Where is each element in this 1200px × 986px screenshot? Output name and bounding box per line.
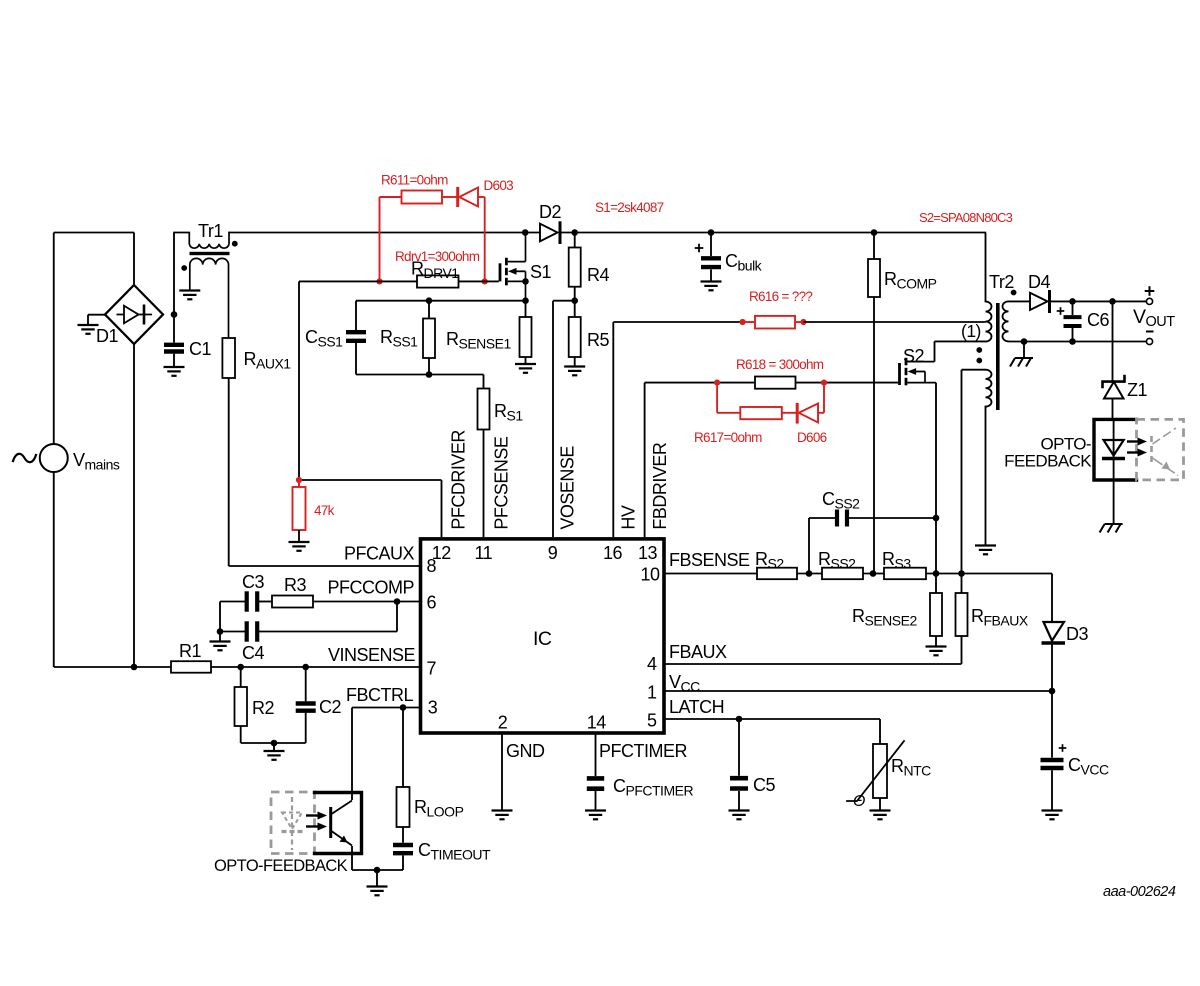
svg-text:PFCDRIVER: PFCDRIVER	[449, 430, 469, 530]
label CPFCTIMER	[613, 776, 693, 799]
ground below CPFCTIMER	[585, 811, 606, 820]
pin number 3	[428, 698, 438, 718]
resistor R1	[171, 661, 211, 673]
wire red D603 branch right	[478, 197, 485, 281]
label S1	[530, 262, 552, 282]
wire CSS1 bottom rail	[356, 374, 484, 376]
capacitor C1	[164, 345, 184, 352]
label FEEDBACK right	[1004, 452, 1092, 471]
pin label VINSENSE	[328, 645, 416, 665]
svg-text:Tr2: Tr2	[989, 272, 1014, 292]
pin label LATCH	[669, 697, 724, 717]
ground below R2/C2	[264, 751, 285, 760]
label C6	[1087, 310, 1109, 330]
label C2	[319, 697, 341, 717]
resistor RAUX1	[222, 338, 235, 378]
wire Z1 to opto LED	[1113, 399, 1114, 459]
svg-text:D606: D606	[797, 430, 827, 445]
wire left mains rail vertical	[53, 233, 55, 668]
node PFCCOMP junction	[394, 598, 401, 605]
pin number 6	[427, 593, 437, 613]
label RSS1	[380, 327, 418, 350]
ground below Tr2 aux	[975, 546, 996, 555]
svg-text:D1: D1	[96, 326, 118, 346]
resistor RLOOP	[397, 708, 410, 828]
wire C3 left lead	[220, 601, 245, 603]
node S1 source junction	[522, 278, 529, 285]
Tr1 secondary phasing dot	[181, 265, 187, 271]
wire RSENSE1 to ground	[525, 357, 527, 364]
ground below C5	[729, 811, 750, 820]
label C1	[189, 339, 211, 359]
svg-text:Rdrv1=300ohm: Rdrv1=300ohm	[395, 249, 480, 264]
label OPTO- right	[1040, 435, 1091, 454]
wire Tr1 primary left lead down to D1	[173, 233, 175, 315]
wire C4 right return	[259, 602, 397, 632]
node red junction 47k tap	[296, 477, 302, 483]
transformer Tr2 aux winding	[986, 370, 992, 407]
wire CSS1 top rail	[356, 300, 526, 302]
diode D603 (red)	[458, 187, 478, 207]
svg-text:R611=0ohm: R611=0ohm	[381, 173, 448, 188]
svg-text:47k: 47k	[314, 503, 335, 518]
resistor R611 (red)	[402, 191, 443, 204]
resistor RS2	[757, 568, 797, 580]
capacitor CSS2	[809, 510, 936, 574]
node RSENSE1 top junction	[522, 297, 529, 304]
wire PFCSENSE: RS1 to IC pin 11	[483, 430, 485, 538]
ground below RSENSE2	[926, 647, 947, 656]
diode D2	[540, 221, 560, 244]
ground below GND pin	[492, 811, 513, 820]
svg-text:9: 9	[548, 543, 558, 563]
node CSS2 right junction	[933, 515, 940, 522]
Tr2 primary phasing dot	[976, 347, 982, 353]
Tr1 primary phasing dot	[232, 241, 238, 247]
pin label PFCAUX	[344, 544, 415, 564]
wire 47k bottom lead	[298, 530, 300, 542]
opto phototransistor left	[331, 801, 352, 846]
terminal VOUT-	[1146, 338, 1152, 344]
wire FBDRIVER: IC pin 13 to R618 line	[645, 383, 755, 537]
pin label VCC	[669, 672, 700, 695]
svg-text:VINSENSE: VINSENSE	[328, 645, 416, 665]
svg-text:D4: D4	[1028, 272, 1050, 292]
svg-text:C4: C4	[242, 643, 264, 663]
capacitor CSS1	[346, 301, 366, 375]
node C4 left junction	[217, 628, 224, 635]
wire top HV rail right of D2	[560, 232, 986, 234]
node red junction D606 right	[821, 380, 827, 386]
node red junction R616 left	[740, 319, 746, 325]
wire red D606 branch right	[818, 383, 824, 413]
node R4 tap junction	[571, 229, 578, 236]
thermistor RNTC	[847, 741, 904, 801]
wire R4 bottom lead	[574, 287, 576, 301]
resistor RS3	[884, 568, 926, 580]
svg-text:D3: D3	[1066, 624, 1088, 644]
wire PFCCOMP: R3 to IC pin 6	[313, 601, 421, 603]
pin label HV (rotated)	[618, 505, 638, 529]
pin label VOSENSE (rotated)	[557, 446, 577, 530]
plus mark Cbulk	[695, 244, 704, 253]
label RCOMP	[884, 269, 937, 292]
svg-text:Z1: Z1	[1127, 380, 1147, 400]
label VOUT	[1133, 306, 1175, 330]
wire ground stub R2/C2	[273, 743, 275, 751]
node opto ground junction	[374, 867, 381, 874]
label D603 (red)	[484, 178, 514, 193]
label D1	[96, 326, 118, 346]
resistor R618	[755, 377, 796, 389]
wire RSS2 to RS3	[863, 573, 884, 575]
wire PFCAUX: RAUX1 to IC pin 8	[229, 378, 421, 566]
label RFBAUX	[971, 606, 1029, 629]
node RCOMP junction	[871, 229, 878, 236]
svg-text:PFCSENSE: PFCSENSE	[491, 436, 511, 530]
wire D1 bottom lead	[133, 344, 135, 667]
svg-text:D2: D2	[539, 202, 561, 222]
wire RCOMP bottom lead	[873, 297, 875, 574]
svg-text:R618 = 300ohm: R618 = 300ohm	[736, 357, 824, 372]
pin label FBAUX	[669, 642, 727, 662]
node RLOOP junction	[400, 704, 407, 711]
ground below opto-feedback	[367, 887, 388, 896]
svg-text:4: 4	[647, 654, 657, 674]
ground below Cbulk	[701, 282, 722, 291]
svg-text:Θ: Θ	[853, 793, 865, 810]
label RNTC	[891, 756, 931, 779]
wire GND pin 2 to ground	[501, 733, 503, 810]
node RSS1 top junction	[426, 297, 433, 304]
opto LED left arrows	[306, 812, 327, 831]
svg-text:R616 = ???: R616 = ???	[749, 289, 812, 304]
label C4	[242, 643, 264, 663]
svg-text:PFCAUX: PFCAUX	[344, 544, 415, 564]
capacitor C6	[1064, 301, 1082, 341]
svg-text:GND: GND	[506, 741, 545, 761]
opto LED left (dashed gray)	[282, 797, 303, 850]
transistor S2 MOSFET	[900, 358, 937, 386]
label aaa-002624	[1103, 884, 1176, 900]
wire Tr2 primary top lead	[985, 233, 987, 302]
label R4	[587, 265, 609, 285]
wire RNTC to ground	[879, 798, 881, 810]
label RSENSE1	[446, 329, 511, 352]
label CVCC	[1068, 755, 1109, 778]
label IC	[533, 628, 552, 650]
wire S1 gate line	[299, 280, 499, 282]
capacitor CPFCTIMER	[587, 733, 604, 789]
minus mark VOUT	[1146, 331, 1154, 333]
svg-text:2: 2	[498, 713, 508, 733]
zener diode Z1	[1103, 376, 1125, 399]
resistor RSS1	[423, 301, 435, 375]
node RCOMP bottom junction	[870, 570, 877, 577]
chassis ground below right opto	[1100, 524, 1123, 533]
capacitor C5	[730, 719, 748, 789]
optocoupler right solid box	[1094, 419, 1137, 480]
svg-text:C6: C6	[1087, 310, 1109, 330]
wire red R611 to D603	[442, 196, 458, 198]
svg-text:VOSENSE: VOSENSE	[557, 446, 577, 530]
svg-text:FEEDBACK: FEEDBACK	[1004, 452, 1092, 471]
wire left mains rail top horizontal	[54, 232, 134, 234]
wire top HV rail left of D2	[229, 232, 540, 234]
pin label PFCDRIVER (rotated)	[449, 430, 469, 530]
wire D3 to VCC junction	[1051, 643, 1053, 758]
svg-text:R3: R3	[284, 575, 306, 595]
node C5 junction	[736, 716, 743, 723]
resistor R2	[235, 667, 248, 726]
node RFBAUX top junction	[958, 570, 965, 577]
wire R5 to ground	[574, 357, 576, 366]
svg-text:C1: C1	[189, 339, 211, 359]
node junction mains/D1 bottom	[131, 664, 138, 671]
label R618 = 300ohm (red)	[736, 357, 824, 372]
wire mains bottom horizontal	[54, 666, 171, 668]
resistor RSS2	[822, 568, 863, 580]
svg-text:R5: R5	[587, 330, 609, 350]
wire CVCC to ground	[1051, 770, 1053, 810]
wire R2/C2 bottom	[241, 713, 306, 743]
label C5	[753, 775, 775, 795]
ground below Tr1 secondary	[179, 291, 200, 300]
wire red R617 branch left	[717, 383, 740, 413]
label CSS2	[822, 489, 860, 512]
resistor R5	[569, 301, 581, 357]
label D606 (red)	[797, 430, 827, 445]
ground below C1	[164, 367, 185, 376]
label R616 = ??? (red)	[749, 289, 812, 304]
svg-text:(1): (1)	[961, 321, 981, 341]
pin label FBSENSE	[669, 550, 750, 570]
capacitor CVCC	[1041, 760, 1064, 768]
capacitor C3	[247, 591, 258, 611]
wire R618 to S2 gate	[796, 382, 899, 384]
resistor RSENSE2	[930, 593, 942, 636]
ground at D1 left	[78, 325, 99, 334]
svg-text:13: 13	[638, 543, 658, 563]
label tap (1)	[961, 321, 981, 341]
node junction D1 right / C1 / Tr1	[171, 311, 178, 318]
svg-text:OPTO-FEEDBACK: OPTO-FEEDBACK	[214, 857, 348, 875]
chassis ground secondary	[1010, 358, 1033, 367]
optocoupler left solid box	[315, 793, 362, 854]
svg-text:R1: R1	[179, 641, 201, 661]
wire FBCTRL: IC pin 3 to opto	[352, 708, 421, 801]
label R617=0ohm (red)	[694, 430, 762, 445]
opto LED right	[1102, 440, 1125, 459]
optocoupler left dashed box	[271, 792, 315, 854]
node red junction left on gate wire	[376, 278, 382, 284]
pin number 2	[498, 713, 508, 733]
resistor R4	[569, 233, 581, 287]
resistor R3	[272, 596, 313, 608]
label C3	[242, 572, 264, 592]
node red junction R616 right	[800, 319, 806, 325]
label RS1	[494, 401, 523, 424]
label OPTO-FEEDBACK left	[214, 857, 348, 875]
pin number 10	[640, 565, 660, 585]
label RS3	[882, 549, 911, 572]
wire Tr2 aux bottom lead	[985, 407, 987, 545]
svg-text:16: 16	[603, 543, 623, 563]
node C6 top junction	[1069, 298, 1076, 305]
wire C1 top lead	[173, 315, 175, 343]
wire VCC: IC pin 1 to junction	[664, 690, 1052, 692]
label R1	[179, 641, 201, 661]
bridge rectifier D1	[105, 285, 163, 344]
node C6 bottom junction	[1069, 338, 1076, 345]
wire VOUT+ rail	[1050, 300, 1147, 302]
svg-text:R617=0ohm: R617=0ohm	[694, 430, 762, 445]
pin number 14	[587, 713, 607, 733]
label R2	[252, 698, 274, 718]
capacitor C4	[247, 621, 258, 641]
node S2 source junction on FBSENSE	[933, 570, 940, 577]
pin number 13	[638, 543, 658, 563]
Tr2 secondary phasing dot	[1011, 290, 1017, 296]
label D2	[539, 202, 561, 222]
wire ground stub opto	[376, 870, 378, 886]
svg-text:HV: HV	[618, 505, 638, 529]
svg-text:D603: D603	[484, 178, 514, 193]
svg-text:6: 6	[427, 593, 437, 613]
label theta	[853, 793, 865, 810]
svg-text:aaa-002624: aaa-002624	[1103, 884, 1176, 900]
plus mark C6	[1057, 307, 1065, 315]
wire LATCH: IC pin 5 to RNTC	[664, 719, 880, 744]
ground below RSENSE1	[515, 364, 536, 373]
label Vmains	[73, 450, 120, 473]
resistor RSENSE1	[520, 301, 532, 357]
wire D1 top lead	[133, 233, 135, 286]
pin number 16	[603, 543, 623, 563]
node secondary ground junction	[1021, 338, 1028, 345]
node CSS2 left junction	[806, 570, 813, 577]
wire S2 drain to Tr2 primary	[935, 341, 986, 361]
plus mark VOUT	[1145, 286, 1155, 296]
wire Z1 top lead	[1112, 301, 1114, 381]
node red junction R617 left	[714, 380, 720, 386]
wire C3/C4 left vertical	[219, 602, 221, 642]
pin number 5	[647, 711, 657, 731]
label RS2	[755, 549, 784, 572]
node Z1 top junction	[1109, 298, 1116, 305]
label R5	[587, 330, 609, 350]
pin label PFCSENSE (rotated)	[491, 436, 511, 530]
svg-text:Tr1: Tr1	[198, 221, 223, 241]
ground below C3/C4	[210, 642, 231, 651]
label D4	[1028, 272, 1050, 292]
node RSS1 bottom junction	[426, 371, 433, 378]
svg-text:FBSENSE: FBSENSE	[669, 550, 750, 570]
resistor RS1	[478, 375, 490, 430]
wire VINSENSE: R1 to IC pin 7	[211, 666, 421, 668]
label RAUX1	[244, 349, 292, 372]
label Cbulk	[725, 251, 763, 274]
opto phototransistor right (dashed)	[1152, 428, 1179, 476]
opto LED right arrows	[1127, 438, 1147, 457]
wire VOUT- rail	[1009, 341, 1147, 343]
pin label GND	[506, 741, 545, 761]
transformer Tr1 primary winding	[174, 233, 229, 249]
wire HV: IC pin 16 to R616	[613, 322, 742, 537]
svg-text:LATCH: LATCH	[669, 697, 724, 717]
wire VOSENSE: junction to IC pin 9	[553, 301, 575, 537]
AC source Vmains	[13, 444, 68, 472]
capacitor C2	[296, 667, 316, 711]
svg-text:5: 5	[647, 711, 657, 731]
pin number 11	[474, 543, 492, 563]
ground below R5	[564, 367, 585, 376]
resistor R616 (red)	[743, 316, 804, 329]
resistor 47k (red)	[293, 480, 306, 530]
capacitor CTIMEOUT	[393, 827, 413, 870]
label CTIMEOUT	[418, 840, 491, 863]
svg-text:R2: R2	[252, 698, 274, 718]
label RSS2	[818, 549, 856, 572]
svg-text:FBDRIVER: FBDRIVER	[650, 442, 670, 530]
svg-text:PFCCOMP: PFCCOMP	[328, 578, 415, 598]
capacitor Cbulk	[701, 233, 721, 282]
pin number 9	[548, 543, 558, 563]
svg-text:1: 1	[647, 683, 657, 703]
node red junction right on gate wire	[482, 278, 488, 284]
node R4/R5 junction	[571, 297, 578, 304]
svg-text:3: 3	[428, 698, 438, 718]
svg-text:14: 14	[587, 713, 607, 733]
node VCC junction	[1049, 688, 1056, 695]
wire red R611 branch left	[380, 197, 402, 281]
transistor S1 MOSFET	[500, 233, 526, 301]
node C2 top junction	[302, 664, 309, 671]
transformer Tr2 secondary winding	[1003, 301, 1009, 341]
transformer Tr1 core	[190, 252, 230, 255]
wire S2 source down	[935, 383, 937, 593]
node R2/C2 ground junction	[271, 740, 278, 747]
pin number 8	[427, 556, 437, 576]
wire RSENSE2 to ground	[935, 636, 937, 646]
pin label FBCTRL	[346, 685, 413, 705]
label R611=0ohm (red)	[381, 173, 448, 188]
plus mark CVCC	[1059, 744, 1067, 752]
wire CPFCTIMER to ground	[595, 791, 597, 810]
label Tr2	[989, 272, 1014, 292]
label CSS1	[305, 327, 343, 350]
wire secondary ground stub	[1023, 342, 1025, 359]
wire FBAUX: RFBAUX to IC pin 4	[664, 636, 962, 664]
wire red R617 to D606	[782, 412, 797, 414]
svg-text:8: 8	[427, 556, 437, 576]
Tr2 aux phasing dot	[976, 358, 982, 364]
wire opto emitter to CTIMEOUT bottom	[352, 846, 403, 870]
svg-text:C2: C2	[319, 697, 341, 717]
label S2	[903, 346, 925, 366]
node Cbulk junction	[708, 229, 715, 236]
wire C4 left lead	[220, 631, 245, 633]
label RDRV1	[411, 259, 459, 282]
pin label FBDRIVER (rotated)	[650, 442, 670, 530]
svg-text:7: 7	[427, 659, 437, 679]
diode D606 (red)	[797, 403, 818, 424]
pin number 7	[427, 659, 437, 679]
label S1=2sk4087 (red)	[595, 200, 664, 215]
transformer Tr1 secondary winding	[190, 258, 229, 338]
svg-text:S1: S1	[530, 262, 552, 282]
svg-text:FBAUX: FBAUX	[669, 642, 727, 662]
